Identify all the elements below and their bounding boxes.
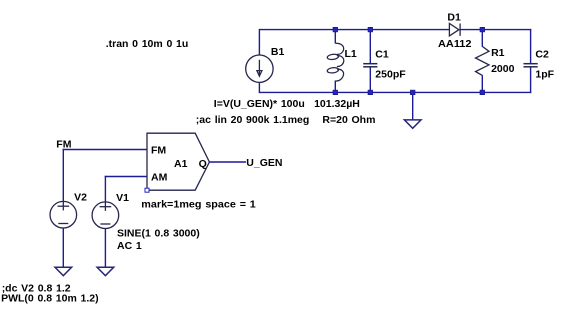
diode D1 — [449, 24, 460, 36]
wire ground stub mid — [412, 92, 414, 120]
node junction L1 top — [333, 27, 338, 32]
ground (top circuit) — [404, 120, 421, 128]
svg-text:I=V(U_GEN)* 100u: I=V(U_GEN)* 100u — [214, 98, 305, 110]
node junction R1 top — [480, 27, 485, 32]
wire C2 top lead — [530, 29, 532, 63]
wire B1 bottom lead — [258, 82, 260, 93]
modulator A1 pentagon — [147, 133, 209, 190]
svg-text:L1: L1 — [345, 48, 357, 60]
wire L1 bottom lead — [334, 81, 336, 93]
svg-text:C1: C1 — [375, 49, 389, 61]
current source B1 — [246, 55, 273, 82]
wire L1 top lead — [334, 30, 336, 44]
wire R1 bottom lead — [481, 75, 483, 92]
wire top rail left of D1 — [259, 29, 449, 31]
svg-text:PWL(0 0.8 10m 1.2): PWL(0 0.8 10m 1.2) — [1, 293, 99, 305]
svg-text:B1: B1 — [271, 46, 285, 58]
wire FM horizontal — [63, 149, 147, 151]
unconnected pin square A1 — [145, 188, 149, 192]
svg-text:Q: Q — [199, 158, 207, 170]
wire AM horizontal — [105, 176, 147, 178]
wire C1 top lead — [369, 30, 371, 63]
svg-text:2000: 2000 — [491, 63, 515, 75]
wire V1 ground lead — [104, 229, 106, 268]
svg-text:R1: R1 — [491, 47, 505, 59]
capacitor C1 — [363, 64, 377, 67]
node junction L1 bottom — [333, 90, 338, 95]
wire A1 output — [209, 161, 246, 163]
svg-text:AA112: AA112 — [438, 38, 472, 50]
svg-text:AC 1: AC 1 — [117, 240, 142, 252]
svg-text:.tran 0 10m 0 1u: .tran 0 10m 0 1u — [106, 38, 189, 50]
svg-text:D1: D1 — [447, 12, 461, 24]
svg-text:250pF: 250pF — [375, 69, 406, 81]
svg-text:C2: C2 — [535, 48, 549, 60]
voltage source V1 — [92, 202, 119, 229]
wire V2 riser — [62, 149, 64, 202]
voltage source V2 — [50, 201, 77, 228]
wire B1 top lead — [258, 29, 260, 55]
wire V1 riser — [104, 176, 106, 202]
node junction C1 top — [368, 27, 373, 32]
node junction R1 bottom — [480, 90, 485, 95]
wire C1 bottom lead — [369, 67, 371, 92]
wire C2 bottom lead — [530, 67, 532, 93]
svg-text:AM: AM — [151, 172, 168, 184]
svg-text:R=20 Ohm: R=20 Ohm — [322, 114, 375, 126]
svg-text:SINE(1 0.8 3000): SINE(1 0.8 3000) — [117, 228, 200, 240]
svg-text:U_GEN: U_GEN — [246, 157, 282, 169]
svg-text:FM: FM — [56, 138, 71, 150]
svg-text:1pF: 1pF — [535, 69, 554, 81]
resistor R1 — [476, 46, 490, 75]
svg-text:A1: A1 — [174, 158, 188, 170]
svg-text:101.32µH: 101.32µH — [314, 98, 360, 110]
node junction C1 bottom — [368, 90, 373, 95]
svg-text:;ac lin 20 900k 1.1meg: ;ac lin 20 900k 1.1meg — [196, 114, 310, 126]
node junction ground stub — [410, 90, 415, 95]
wire top rail right of D1 — [460, 29, 531, 31]
svg-text:V2: V2 — [74, 192, 87, 204]
capacitor C2 — [524, 64, 538, 67]
ground V1 — [97, 267, 114, 275]
ground V2 — [55, 267, 72, 275]
inductor L1 — [327, 43, 344, 81]
wire R1 top lead — [481, 30, 483, 47]
wire V2 ground lead — [62, 228, 64, 267]
svg-text:FM: FM — [151, 145, 166, 157]
svg-text:mark=1meg space = 1: mark=1meg space = 1 — [141, 199, 256, 211]
wire bottom rail — [259, 91, 531, 93]
svg-text:V1: V1 — [116, 192, 129, 204]
